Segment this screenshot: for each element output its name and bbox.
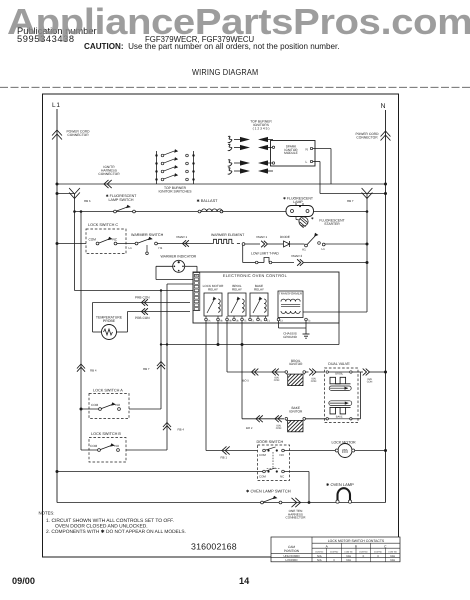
svg-text:N: N bbox=[306, 148, 309, 152]
svg-text:X: X bbox=[333, 558, 335, 562]
svg-text:WARMER ELEMENT: WARMER ELEMENT bbox=[211, 233, 245, 237]
svg-text:CONNECTOR: CONNECTOR bbox=[286, 516, 307, 520]
svg-text:WARMER INDICATOR: WARMER INDICATOR bbox=[161, 255, 197, 259]
svg-text:COM: COM bbox=[90, 444, 98, 448]
svg-text:COM: COM bbox=[91, 403, 99, 407]
svg-text:COM-NC: COM-NC bbox=[374, 550, 383, 553]
svg-text:BAKE: BAKE bbox=[336, 416, 343, 419]
svg-text:✱ OVEN LAMP SWITCH: ✱ OVEN LAMP SWITCH bbox=[246, 489, 291, 494]
svg-text:X: X bbox=[362, 554, 364, 558]
svg-text:✱ OVEN LAMP: ✱ OVEN LAMP bbox=[326, 482, 354, 487]
svg-text:NC: NC bbox=[280, 475, 284, 479]
svg-text:E2: E2 bbox=[280, 320, 284, 323]
svg-text:VMAR 1: VMAR 1 bbox=[256, 235, 268, 239]
svg-text:IGNITOR SWITCHES: IGNITOR SWITCHES bbox=[159, 190, 193, 194]
svg-text:T3: T3 bbox=[308, 320, 311, 323]
svg-text:RB 1: RB 1 bbox=[221, 456, 228, 460]
svg-text:IGNITOR: IGNITOR bbox=[289, 410, 303, 414]
svg-text:POSITION: POSITION bbox=[284, 549, 300, 553]
svg-text:PROBE: PROBE bbox=[103, 319, 116, 323]
svg-text:LOCK SWITCH A: LOCK SWITCH A bbox=[93, 389, 123, 393]
svg-text:OVEN DOOR CLOSED AND UNLOCKED.: OVEN DOOR CLOSED AND UNLOCKED. bbox=[55, 523, 148, 529]
svg-text:RB 7: RB 7 bbox=[347, 199, 354, 203]
svg-text:BROIL: BROIL bbox=[335, 373, 343, 376]
svg-text:LAMP SWITCH: LAMP SWITCH bbox=[109, 198, 134, 202]
svg-text:NO: NO bbox=[116, 403, 121, 407]
svg-text:LOW LIMIT T-PAD: LOW LIMIT T-PAD bbox=[251, 252, 279, 256]
svg-text:ELECTRONIC OVEN CONTROL: ELECTRONIC OVEN CONTROL bbox=[223, 273, 288, 278]
svg-text:COM: COM bbox=[259, 453, 266, 457]
svg-text:LAMP: LAMP bbox=[293, 200, 303, 204]
svg-text:E1: E1 bbox=[267, 320, 271, 323]
svg-text:PRB CON: PRB CON bbox=[135, 316, 150, 320]
svg-text:H1: H1 bbox=[302, 248, 306, 252]
svg-text:RB 4: RB 4 bbox=[90, 369, 97, 373]
svg-text:LOCK SWITCH C: LOCK SWITCH C bbox=[88, 223, 118, 227]
svg-text:RB 7: RB 7 bbox=[143, 367, 150, 371]
svg-text:T1: T1 bbox=[260, 320, 263, 323]
svg-text:1. CIRCUIT SHOWN WITH ALL CON: 1. CIRCUIT SHOWN WITH ALL CONTROLS SET T… bbox=[46, 518, 174, 524]
svg-text:✱ BALLAST: ✱ BALLAST bbox=[197, 199, 219, 203]
svg-text:H1: H1 bbox=[159, 246, 163, 250]
svg-text:N/A: N/A bbox=[317, 558, 322, 562]
svg-text:L: L bbox=[306, 160, 308, 164]
svg-text:2B: 2B bbox=[229, 320, 232, 323]
svg-text:DUAL VALVE: DUAL VALVE bbox=[328, 362, 350, 366]
svg-text:2B: 2B bbox=[220, 320, 223, 323]
svg-text:RELAY: RELAY bbox=[254, 287, 264, 291]
svg-text:RELAY: RELAY bbox=[208, 287, 218, 291]
svg-text:GROUND: GROUND bbox=[283, 335, 298, 339]
svg-text:VMAR 1: VMAR 1 bbox=[176, 235, 188, 239]
svg-text:LOCK MOTOR SWITCH CONTACTS: LOCK MOTOR SWITCH CONTACTS bbox=[328, 539, 385, 543]
svg-text:COM: COM bbox=[89, 238, 97, 242]
svg-text:DOOR SWITCH: DOOR SWITCH bbox=[257, 440, 284, 444]
svg-text:DIODE: DIODE bbox=[280, 235, 290, 239]
svg-text:2A: 2A bbox=[208, 320, 211, 323]
svg-text:CON: CON bbox=[311, 380, 317, 383]
svg-text:RELAY: RELAY bbox=[232, 287, 242, 291]
svg-text:1B: 1B bbox=[236, 320, 239, 323]
svg-text:X: X bbox=[377, 554, 379, 558]
svg-text:316002168: 316002168 bbox=[191, 541, 237, 551]
svg-text:NO: NO bbox=[280, 453, 285, 457]
svg-text:N/A: N/A bbox=[390, 558, 395, 562]
svg-text:MODULE: MODULE bbox=[284, 151, 298, 155]
svg-text:PRB CON: PRB CON bbox=[135, 296, 150, 300]
svg-text:CONNECTOR: CONNECTOR bbox=[98, 172, 120, 176]
svg-text:L1: L1 bbox=[129, 246, 133, 250]
svg-text:E1: E1 bbox=[252, 320, 256, 323]
svg-text:COM: COM bbox=[259, 475, 266, 479]
svg-text:CON: CON bbox=[276, 427, 282, 430]
svg-text:N: N bbox=[381, 103, 386, 110]
svg-text:IGNITOR: IGNITOR bbox=[289, 362, 303, 366]
svg-text:RB 4: RB 4 bbox=[178, 428, 185, 432]
svg-text:2. COMPONENTS WITH ✱ DO NOT A: 2. COMPONENTS WITH ✱ DO NOT APPEAR ON AL… bbox=[46, 529, 186, 535]
svg-text:COM-NO: COM-NO bbox=[330, 550, 339, 553]
svg-text:L1: L1 bbox=[52, 102, 61, 109]
svg-text:RB 6: RB 6 bbox=[84, 199, 91, 203]
svg-text:✱: ✱ bbox=[311, 217, 314, 221]
svg-text:( 1 2 3 4 5 ): ( 1 2 3 4 5 ) bbox=[253, 126, 270, 130]
svg-text:STARTER: STARTER bbox=[324, 222, 340, 226]
svg-text:NO: NO bbox=[115, 444, 120, 448]
svg-text:LOCK SWITCH B: LOCK SWITCH B bbox=[91, 432, 121, 436]
svg-text:BO 2: BO 2 bbox=[246, 426, 253, 430]
svg-text:B: B bbox=[355, 544, 357, 548]
svg-text:m: m bbox=[342, 448, 348, 455]
svg-text:CONNECTOR: CONNECTOR bbox=[67, 133, 89, 137]
svg-text:TRANSFORMER: TRANSFORMER bbox=[279, 292, 303, 296]
svg-text:LOCKED: LOCKED bbox=[286, 558, 298, 562]
svg-text:COM-NO: COM-NO bbox=[359, 550, 368, 553]
svg-text:T5: T5 bbox=[244, 320, 247, 323]
svg-text:NC: NC bbox=[113, 238, 118, 242]
svg-text:CONNECTOR: CONNECTOR bbox=[356, 135, 378, 139]
svg-text:NOTES:: NOTES: bbox=[39, 511, 55, 516]
svg-text:VMAR 2: VMAR 2 bbox=[291, 254, 303, 258]
svg-text:COM-NC: COM-NC bbox=[345, 550, 354, 553]
svg-text:WARMER SWITCH: WARMER SWITCH bbox=[131, 233, 164, 237]
svg-text:CON: CON bbox=[367, 380, 373, 383]
svg-text:N/A: N/A bbox=[346, 558, 351, 562]
svg-text:CON: CON bbox=[274, 379, 280, 382]
svg-text:BO 5: BO 5 bbox=[243, 379, 250, 383]
svg-text:L1: L1 bbox=[322, 247, 326, 251]
svg-text:COM-NO: COM-NO bbox=[388, 550, 397, 553]
svg-text:COM-NC: COM-NC bbox=[315, 550, 324, 553]
svg-text:VM: VM bbox=[194, 274, 197, 277]
